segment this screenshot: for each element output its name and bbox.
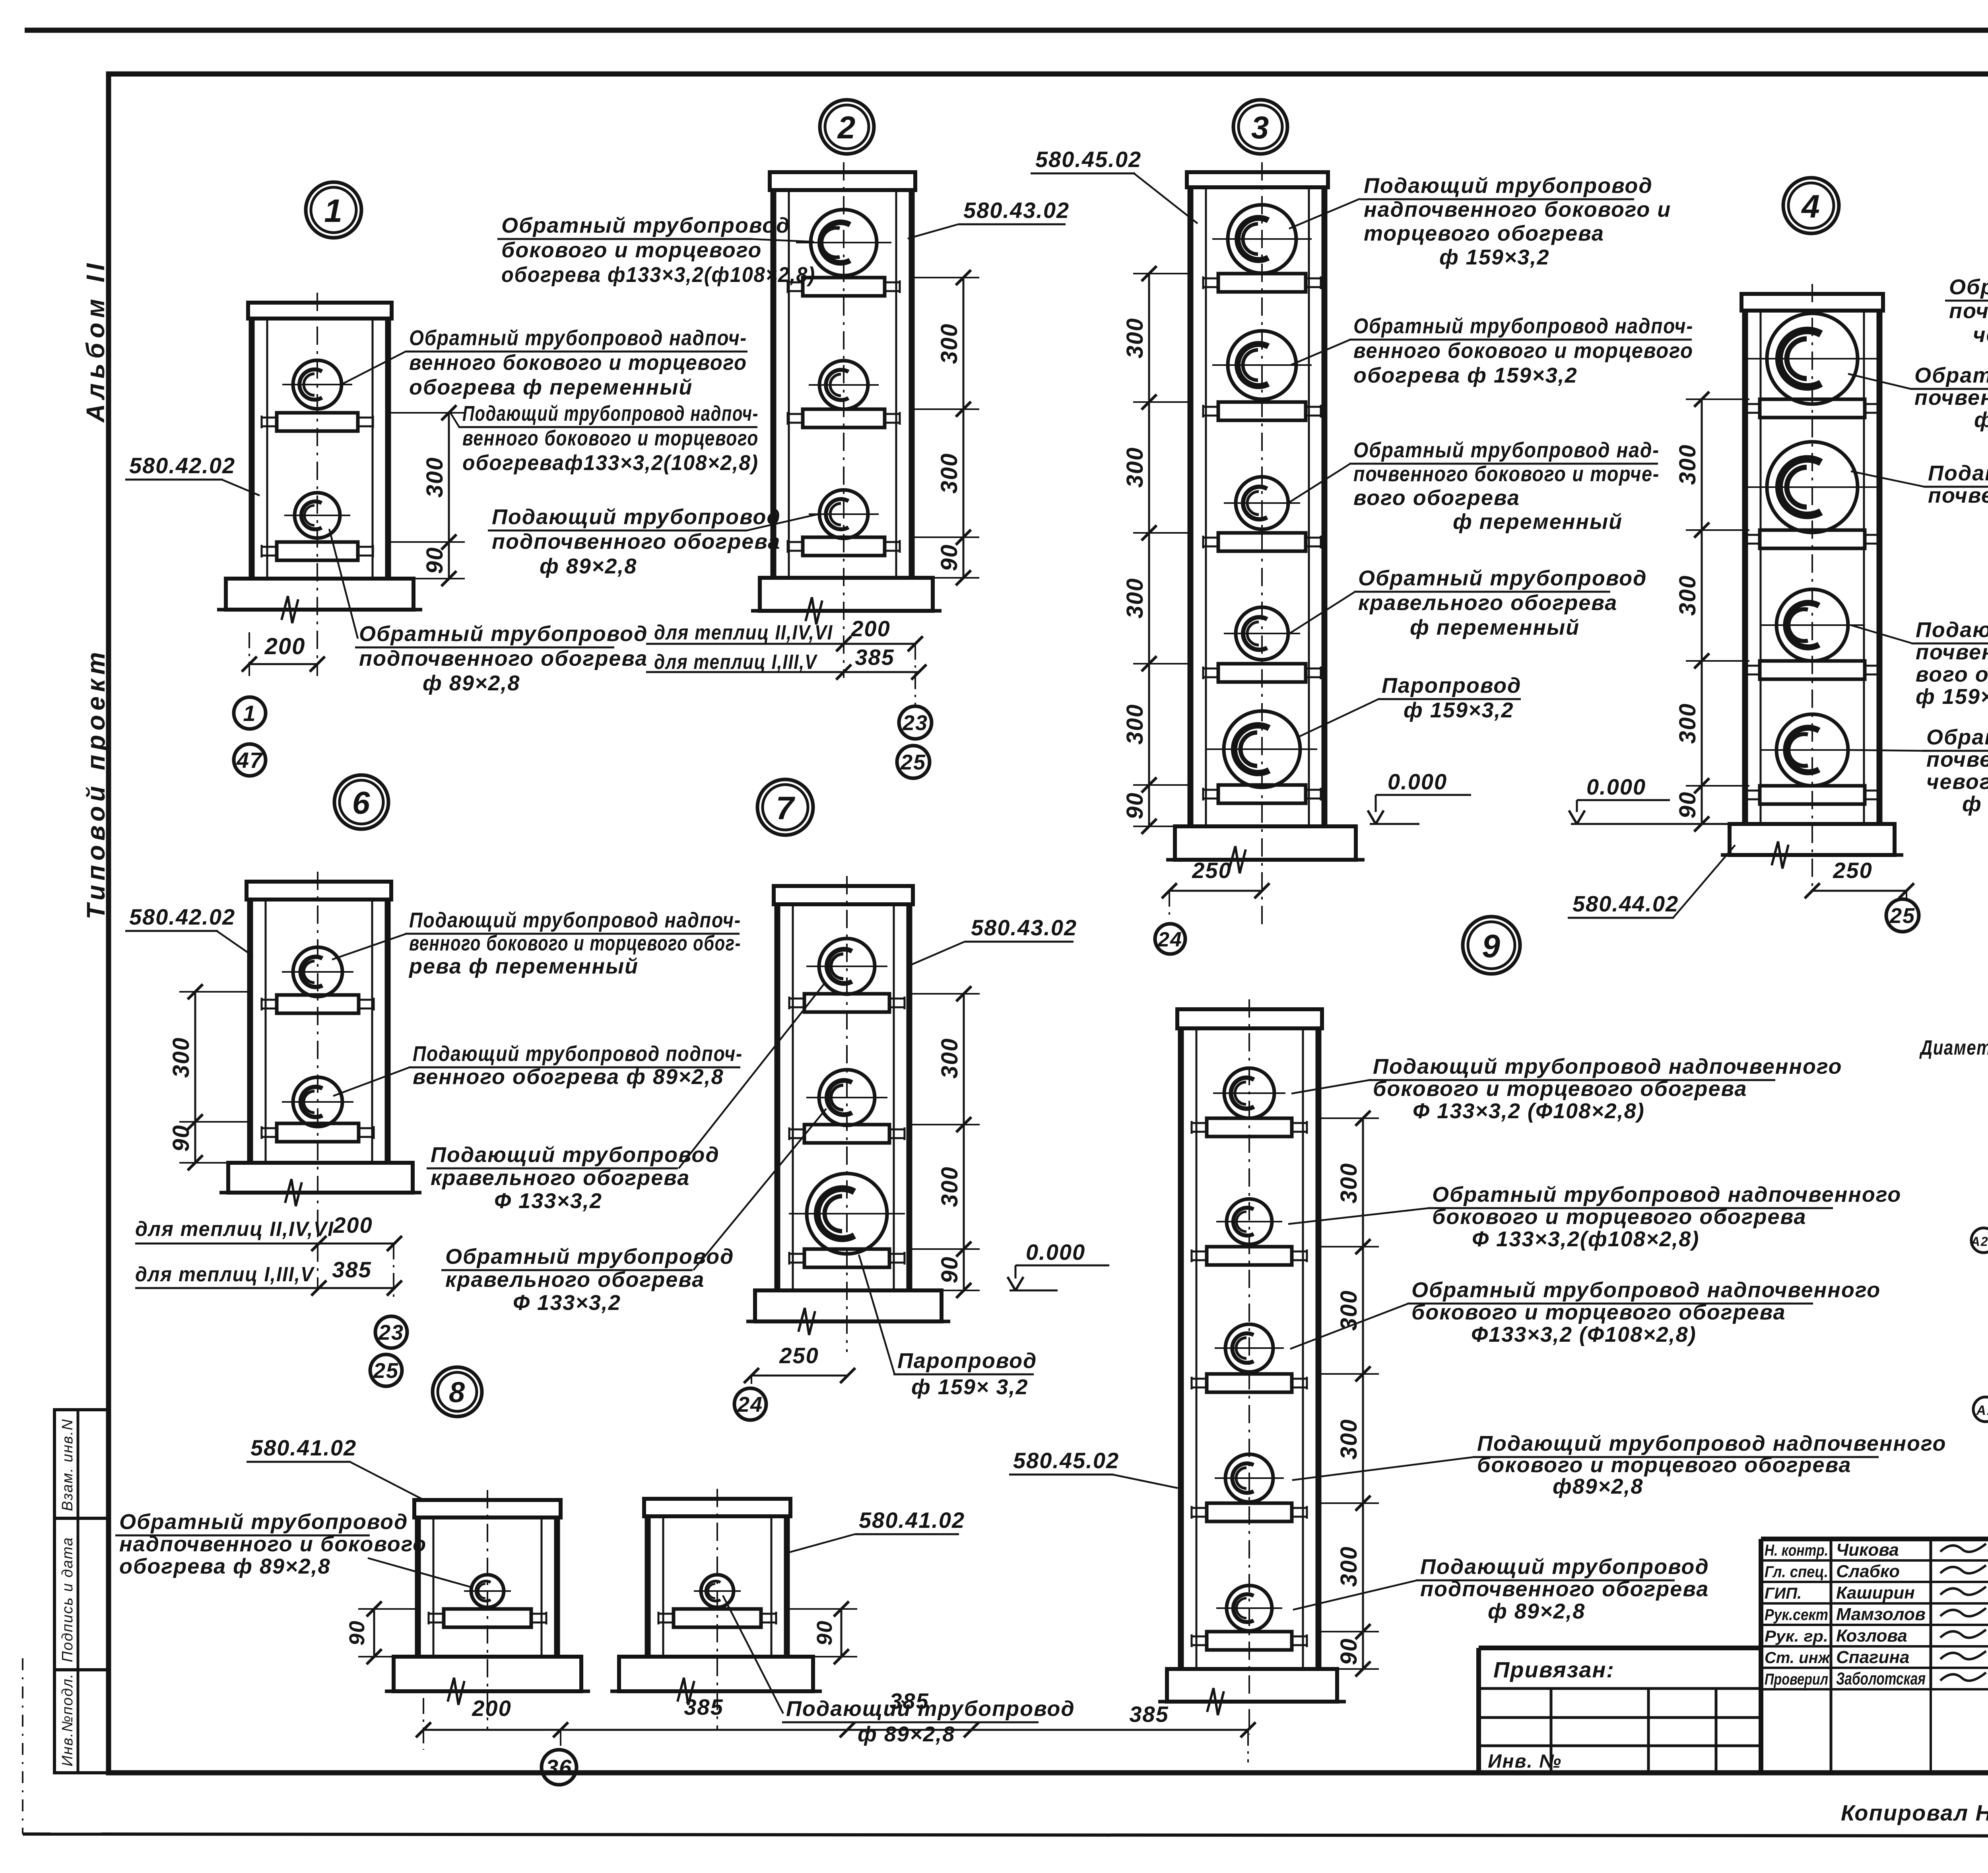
pipe support bracket 1: [674, 1609, 761, 1627]
svg-text:300: 300: [168, 1037, 194, 1078]
leader line: [909, 942, 965, 966]
vertical dimension line: [963, 994, 965, 1290]
break mark: [285, 1179, 302, 1206]
right rail: [1316, 1028, 1322, 1669]
pipe support bracket 1: [1207, 1118, 1292, 1137]
leader line: [1134, 173, 1198, 223]
ground line: [385, 1690, 590, 1693]
svg-text:300: 300: [1675, 575, 1701, 616]
vertical dimension line: [448, 413, 450, 579]
svg-text:Подающий трубопровод: Подающий трубопровод: [1364, 174, 1653, 198]
pipe 2: [819, 1070, 875, 1125]
svg-text:ф 159× 3,2: ф 159× 3,2: [1962, 792, 1988, 816]
svg-text:Обратный трубопровод надпочвен: Обратный трубопровод надпочвенного: [1432, 1183, 1901, 1207]
pipe 1: [1767, 313, 1858, 404]
svg-text:Рук.сект: Рук.сект: [1765, 1606, 1828, 1624]
title block signature columns: [1830, 1539, 1833, 1773]
right rail: [1322, 187, 1328, 826]
outer sheet top edge: [25, 28, 1988, 33]
column cap plate: [414, 1500, 561, 1517]
svg-text:Подпись и дата: Подпись и дата: [59, 1537, 76, 1662]
svg-text:обогреваф133×3,2(108×2,8): обогреваф133×3,2(108×2,8): [462, 451, 759, 475]
vertical dimension line: [1701, 399, 1703, 824]
svg-text:90: 90: [937, 1256, 963, 1284]
svg-text:Гл. спец.: Гл. спец.: [1765, 1563, 1828, 1581]
svg-text:Ф 133×3,2: Ф 133×3,2: [494, 1189, 602, 1213]
dim 90 left column: [373, 1609, 375, 1657]
column centerline: [1261, 162, 1263, 927]
column centerline: [1248, 999, 1250, 1735]
leader line: [786, 1534, 855, 1553]
pipe support bracket 3: [803, 537, 885, 556]
svg-text:0.000: 0.000: [1388, 769, 1447, 794]
node 8 bubble: [433, 1367, 482, 1416]
break mark: [678, 1678, 694, 1705]
svg-text:1: 1: [243, 701, 256, 726]
leader line: [368, 1558, 472, 1587]
leader line: [859, 1255, 895, 1374]
svg-text:торцевого обогрева: торцевого обогрева: [1364, 221, 1604, 245]
svg-text:300: 300: [1336, 1546, 1362, 1587]
pipe 2: [1767, 442, 1858, 532]
pipe support bracket 1: [444, 1609, 531, 1627]
left rail: [645, 1516, 651, 1657]
leader line: [222, 480, 260, 495]
svg-text:Ст. инж: Ст. инж: [1765, 1649, 1831, 1667]
svg-text:580.43.02: 580.43.02: [971, 915, 1077, 940]
svg-text:Каширин: Каширин: [1836, 1583, 1915, 1603]
column centerline: [846, 876, 848, 1352]
leader line: [341, 352, 406, 385]
pipe 2: [1227, 1199, 1272, 1244]
svg-text:90: 90: [345, 1620, 369, 1646]
vertical dimension line: [1362, 1118, 1364, 1669]
svg-text:для теплиц II,IV,VI: для теплиц II,IV,VI: [135, 1218, 334, 1241]
svg-text:200: 200: [850, 616, 890, 641]
svg-text:Обратный трубопровод: Обратный трубопровод: [445, 1245, 734, 1269]
svg-text:Взам. инв.N: Взам. инв.N: [59, 1418, 76, 1511]
svg-text:подпочвенного обогрева: подпочвенного обогрева: [359, 647, 648, 670]
title block lower grid: [1479, 1687, 1761, 1690]
svg-text:ф переменный: ф переменный: [1410, 616, 1580, 639]
pipe support bracket 2: [1207, 1247, 1292, 1265]
svg-text:ф 219×5: ф 219×5: [1974, 408, 1988, 432]
svg-text:Подающий трубопровод над-: Подающий трубопровод над-: [1916, 618, 1988, 642]
left rail: [247, 900, 253, 1163]
svg-text:25: 25: [373, 1359, 399, 1383]
svg-text:Подающий трубопровод: Подающий трубопровод: [492, 505, 781, 529]
right rail: [909, 190, 915, 578]
svg-text:580.42.02: 580.42.02: [129, 904, 235, 929]
ground line: [610, 1690, 822, 1693]
node 9 bubble: [1463, 917, 1520, 974]
pipe support bracket 1: [277, 413, 358, 431]
svg-text:Слабко: Слабко: [1836, 1562, 1900, 1581]
svg-text:Ф 133×3,2 (Ф108×2,8): Ф 133×3,2 (Ф108×2,8): [1413, 1099, 1645, 1123]
svg-text:90: 90: [1122, 792, 1148, 820]
svg-text:385: 385: [855, 645, 894, 670]
svg-text:Подающий трубопровод: Подающий трубопровод: [1420, 1555, 1709, 1579]
svg-text:Подающий трубопровод: Подающий трубопровод: [431, 1143, 720, 1167]
title block signature rows: [1761, 1559, 1988, 1562]
node 3 bubble: [1233, 100, 1287, 154]
pipe support bracket 2: [804, 1125, 889, 1143]
svg-text:Рук. гр.: Рук. гр.: [1765, 1628, 1828, 1645]
foundation base: [394, 1657, 581, 1691]
svg-text:1: 1: [324, 193, 343, 229]
svg-text:24: 24: [1157, 928, 1182, 951]
svg-text:90: 90: [813, 1620, 837, 1646]
svg-text:90: 90: [936, 544, 962, 571]
svg-text:Подающий трубопровод надпочвен: Подающий трубопровод надпочвенного: [1477, 1432, 1946, 1455]
svg-text:обогрева ф 89×2,8: обогрева ф 89×2,8: [119, 1554, 331, 1578]
svg-text:90: 90: [422, 547, 448, 574]
axis line down to bubbles: [914, 644, 916, 705]
right rail: [784, 1516, 790, 1657]
svg-text:Обратный трубопровод: Обратный трубопровод: [119, 1510, 408, 1534]
svg-text:90: 90: [1675, 791, 1701, 819]
foundation base: [1175, 826, 1356, 860]
leader line: [1286, 464, 1350, 504]
node 6 bubble: [334, 775, 388, 829]
break mark: [806, 597, 822, 624]
svg-text:Проверил: Проверил: [1765, 1671, 1828, 1688]
svg-text:580.41.02: 580.41.02: [250, 1435, 357, 1460]
svg-text:для теплиц II,IV,VI: для теплиц II,IV,VI: [654, 621, 833, 644]
svg-text:Обратный трубопровод над-: Обратный трубопровод над-: [1353, 438, 1660, 462]
node 2 bubble: [820, 100, 874, 154]
svg-text:Диаметры трубопроводов см. л: Диаметры трубопроводов см. листы 24, 26÷…: [1919, 1036, 1988, 1059]
svg-text:300: 300: [1122, 578, 1148, 619]
vertical dimension line: [1148, 274, 1150, 826]
leader line: [333, 1067, 410, 1096]
svg-text:2: 2: [837, 110, 856, 145]
left rail: [775, 904, 780, 1290]
column centerline: [716, 1489, 718, 1731]
svg-text:Обратный трубопровод: Обратный трубопровод: [359, 622, 648, 646]
svg-text:Ф 133×3,2(ф108×2,8): Ф 133×3,2(ф108×2,8): [1472, 1227, 1699, 1251]
pipe support bracket 1: [804, 994, 889, 1012]
svg-text:300: 300: [936, 453, 962, 494]
leader line: [450, 412, 459, 427]
svg-text:300: 300: [937, 1166, 963, 1207]
svg-text:Инв.№подл.: Инв.№подл.: [59, 1673, 76, 1766]
svg-text:венного обогрева ф 89×2,8: венного обогрева ф 89×2,8: [413, 1065, 724, 1089]
svg-text:А26: А26: [1971, 1234, 1988, 1249]
svg-text:Ф 133×3,2: Ф 133×3,2: [513, 1291, 621, 1315]
axis bubble 47: [234, 744, 266, 776]
svg-text:Подающий трубопровод надпочвен: Подающий трубопровод надпочвенного: [1373, 1055, 1842, 1078]
leader line: [723, 1595, 783, 1714]
pipe 1: [293, 360, 342, 409]
svg-text:Мамзолов: Мамзолов: [1836, 1605, 1926, 1624]
axis bubble 24 node7: [734, 1388, 766, 1420]
svg-text:ф 89×2,8: ф 89×2,8: [1488, 1599, 1585, 1623]
pipe 4: [1776, 714, 1848, 786]
axis bubble 23 node6: [375, 1316, 407, 1348]
svg-text:300: 300: [1336, 1163, 1362, 1204]
pipe 1: [701, 1575, 734, 1607]
pipe 1: [471, 1575, 504, 1607]
svg-text:чевого обогрева: чевого обогрева: [1926, 770, 1988, 794]
svg-text:24: 24: [737, 1393, 763, 1416]
svg-text:венного бокового и торцевого: венного бокового и торцевого: [409, 351, 747, 375]
title block outline: [1761, 1537, 1988, 1541]
node 1 bubble: [306, 182, 361, 238]
vertical dimension line: [194, 992, 196, 1163]
svg-text:Козлова: Козлова: [1836, 1626, 1907, 1646]
break mark: [282, 596, 298, 623]
svg-text:кравельного обогрева: кравельного обогрева: [1358, 591, 1617, 615]
svg-text:Ф133×3,2 (Ф108×2,8): Ф133×3,2 (Ф108×2,8): [1471, 1323, 1697, 1346]
svg-text:90: 90: [1336, 1638, 1362, 1665]
svg-text:300: 300: [1675, 703, 1701, 744]
svg-text:для теплиц I,III,V: для теплиц I,III,V: [654, 651, 818, 674]
pipe 3: [819, 490, 868, 538]
svg-text:Обратный трубопровод надпочвен: Обратный трубопровод надпочвенного: [1411, 1278, 1881, 1302]
leader line: [329, 529, 358, 639]
svg-text:Подающий трубопровод под-: Подающий трубопровод под-: [1928, 461, 1988, 485]
svg-text:9: 9: [1482, 928, 1501, 964]
break mark: [1229, 846, 1246, 873]
svg-text:200: 200: [472, 1696, 511, 1721]
pipe support bracket 1: [1760, 399, 1865, 418]
svg-text:обогрева ф 159×3,2: обогрева ф 159×3,2: [1353, 363, 1578, 387]
column cap plate: [770, 172, 915, 190]
axis bubble 24: [1155, 924, 1185, 954]
leader line: [217, 931, 253, 956]
leader line: [751, 239, 814, 242]
break mark: [798, 1308, 815, 1335]
leader line: [1112, 1475, 1178, 1488]
foundation base: [1167, 1669, 1337, 1702]
left rail: [249, 319, 255, 579]
pipe 2: [1228, 331, 1296, 399]
column centerline: [843, 162, 845, 678]
svg-text:580.42.02: 580.42.02: [129, 453, 235, 478]
svg-text:кравельного обогрева: кравельного обогрева: [431, 1166, 690, 1190]
leader line: [1288, 592, 1355, 634]
pipe 1: [293, 947, 342, 997]
pipe 5: [1227, 1585, 1272, 1631]
svg-text:кравельного обогрева: кравельного обогрева: [445, 1268, 705, 1292]
svg-text:Типовой проект: Типовой проект: [82, 648, 110, 919]
pipe support bracket 2: [277, 542, 358, 560]
left rail: [1742, 311, 1748, 824]
right rail: [385, 900, 391, 1163]
svg-text:200: 200: [333, 1212, 373, 1238]
pipe support bracket 3: [1218, 533, 1306, 551]
foundation base: [226, 579, 414, 610]
svg-text:300: 300: [936, 323, 962, 364]
pipe 3: [1225, 1324, 1273, 1372]
break mark: [1207, 1688, 1224, 1715]
axis bubble 36: [542, 1750, 577, 1785]
leader line: [350, 1462, 426, 1501]
svg-text:венного бокового и торцевого: венного бокового и торцевого: [1353, 339, 1693, 363]
pipe 2: [295, 493, 340, 538]
svg-text:580.43.02: 580.43.02: [963, 198, 1070, 223]
pipe support bracket 2: [277, 1123, 359, 1142]
svg-text:300: 300: [1122, 704, 1148, 745]
dim 90 right column: [841, 1609, 843, 1657]
pipe support bracket 5: [1207, 1632, 1292, 1650]
svg-text:Чикова: Чикова: [1836, 1540, 1899, 1560]
left rail: [1178, 1028, 1184, 1669]
left rail: [415, 1517, 421, 1657]
axis bubble А1: [1973, 1397, 1988, 1422]
node 4 bubble: [1783, 178, 1839, 233]
leader line: [679, 982, 825, 1168]
outer sheet left lower edge: [22, 1658, 23, 1834]
left stamp strip: [54, 1410, 109, 1773]
pipe support bracket 4: [1760, 786, 1865, 804]
vertical dimension line: [963, 278, 965, 578]
svg-text:4: 4: [1801, 188, 1821, 225]
svg-text:200: 200: [264, 633, 306, 659]
svg-text:Обратный трубопровод: Обратный трубопровод: [501, 214, 790, 237]
leader line: [1851, 625, 1912, 643]
svg-text:ф переменный: ф переменный: [1453, 510, 1623, 534]
svg-text:ГИП.: ГИП.: [1765, 1585, 1802, 1602]
pipe support bracket 2: [803, 409, 885, 427]
pipe support bracket 1: [277, 995, 359, 1013]
pipe support bracket 3: [1760, 661, 1865, 679]
leader line: [1290, 1304, 1408, 1349]
column centerline: [1811, 284, 1813, 891]
leader line: [1673, 845, 1735, 918]
pipe support bracket 2: [1218, 402, 1306, 420]
pipe 2: [293, 1077, 342, 1127]
pipe 5: [1224, 711, 1300, 787]
pipe support bracket 3: [1207, 1374, 1292, 1392]
svg-text:ф 89×2,8: ф 89×2,8: [540, 554, 637, 578]
column cap plate: [1177, 1009, 1322, 1028]
svg-text:вого обогрева: вого обогрева: [1353, 486, 1520, 510]
svg-text:ф 159×3,2: ф 159×3,2: [1404, 698, 1514, 722]
svg-text:Альбом II: Альбом II: [81, 259, 110, 423]
pipe 2: [819, 361, 868, 409]
svg-text:23: 23: [378, 1321, 404, 1345]
right rail: [907, 904, 912, 1290]
leader line: [332, 934, 406, 960]
svg-text:надпочвенного бокового и: надпочвенного бокового и: [1364, 198, 1671, 221]
svg-text:580.44.02: 580.44.02: [1573, 891, 1679, 916]
ground line: [217, 608, 422, 612]
svg-text:А1: А1: [1976, 1403, 1988, 1418]
pipe support bracket 4: [1218, 664, 1306, 682]
svg-text:Паропровод: Паропровод: [897, 1349, 1037, 1373]
svg-text:рева ф переменный: рева ф переменный: [408, 954, 639, 978]
svg-text:Обратный трубопровод под-: Обратный трубопровод под-: [1914, 363, 1988, 387]
svg-text:вого обогрева: вого обогрева: [1916, 663, 1988, 686]
pipe 1: [811, 210, 877, 276]
column cap plate: [1741, 294, 1883, 311]
right rail: [385, 319, 391, 579]
svg-text:ф 89×2,8: ф 89×2,8: [423, 671, 520, 695]
pipe support bracket 1: [1218, 274, 1306, 292]
pipe 4: [1225, 1454, 1273, 1502]
svg-text:для теплиц I,III,V: для теплиц I,III,V: [135, 1263, 315, 1286]
svg-text:3: 3: [1251, 110, 1270, 145]
svg-text:250: 250: [779, 1343, 819, 1368]
svg-text:обогрева ф переменный: обогрева ф переменный: [409, 375, 693, 399]
svg-text:Обратный трубопровод надпоч-: Обратный трубопровод надпоч-: [409, 326, 747, 350]
leader line: [1299, 699, 1378, 736]
svg-text:250: 250: [1833, 858, 1872, 883]
svg-text:580.41.02: 580.41.02: [859, 1508, 965, 1533]
svg-text:300: 300: [1122, 318, 1148, 359]
bottom shared dimension row: [423, 1729, 1248, 1731]
pipe 1: [819, 938, 875, 994]
axis bubble 25 node6: [370, 1354, 402, 1386]
pipe support bracket 5: [1218, 785, 1306, 803]
svg-text:ф 159× 3,2: ф 159× 3,2: [911, 1375, 1028, 1399]
column centerline: [316, 293, 318, 676]
ground line: [746, 1320, 950, 1323]
svg-text:Подающий трубопровод: Подающий трубопровод: [786, 1697, 1075, 1721]
leader line: [1288, 1208, 1429, 1224]
pipe support bracket 3: [804, 1249, 889, 1267]
column cap plate: [1187, 172, 1328, 187]
svg-text:Копировал Николаева: Копировал Николаева: [1841, 1800, 1988, 1825]
break mark: [448, 1678, 464, 1705]
right rail: [1877, 311, 1883, 824]
leader line: [1291, 1080, 1369, 1094]
foundation base: [760, 578, 933, 611]
svg-text:36: 36: [546, 1755, 572, 1780]
pipe 1: [1224, 1068, 1274, 1118]
axis bubble 25: [897, 746, 930, 778]
leader line: [1292, 1457, 1474, 1480]
leader line: [1289, 199, 1360, 229]
svg-text:Обратный трубопровод надпоч-: Обратный трубопровод надпоч-: [1353, 314, 1693, 338]
svg-text:Спагина: Спагина: [1836, 1648, 1910, 1667]
svg-text:Обратный трубопровод над-: Обратный трубопровод над-: [1926, 725, 1988, 749]
svg-text:385: 385: [889, 1688, 929, 1714]
pipe support bracket 2: [1760, 530, 1865, 548]
svg-text:подпочвенного обогрева: подпочвенного обогрева: [492, 530, 780, 554]
svg-text:300: 300: [422, 457, 448, 498]
svg-text:Подающий трубопровод надпоч-: Подающий трубопровод надпоч-: [462, 402, 759, 426]
svg-text:47: 47: [236, 748, 263, 773]
svg-text:580.45.02: 580.45.02: [1035, 147, 1142, 172]
pipe 3: [1236, 477, 1288, 529]
svg-text:почвенного бокового и торче-: почвенного бокового и торче-: [1353, 462, 1660, 486]
svg-text:ф 159×3,2: ф 159×3,2: [1439, 245, 1549, 269]
svg-text:Обратный трубопровод: Обратный трубопровод: [1358, 566, 1647, 590]
svg-text:Подающий трубопровод надпоч-: Подающий трубопровод надпоч-: [409, 908, 741, 932]
svg-text:ф89×2,8: ф89×2,8: [1553, 1475, 1643, 1498]
left rail: [771, 190, 777, 578]
svg-text:0.000: 0.000: [1586, 774, 1646, 799]
svg-text:бокового и торцевого: бокового и торцевого: [501, 238, 762, 262]
svg-text:Привязан:: Привязан:: [1493, 1657, 1615, 1682]
column centerline: [487, 1490, 488, 1731]
leader line: [908, 224, 958, 239]
ground line: [1158, 1700, 1346, 1704]
svg-text:Н. контр.: Н. контр.: [1765, 1542, 1828, 1559]
axis bubble 1: [234, 697, 266, 729]
leader line: [1848, 374, 1911, 389]
axis bubble А26: [1971, 1228, 1988, 1253]
svg-text:300: 300: [1336, 1419, 1362, 1460]
foundation base: [1730, 824, 1895, 855]
svg-text:0.000: 0.000: [1026, 1240, 1085, 1265]
svg-text:Паропровод: Паропровод: [1382, 674, 1521, 698]
leader line: [1291, 340, 1350, 365]
axis bubble 25 node4: [1886, 899, 1919, 932]
